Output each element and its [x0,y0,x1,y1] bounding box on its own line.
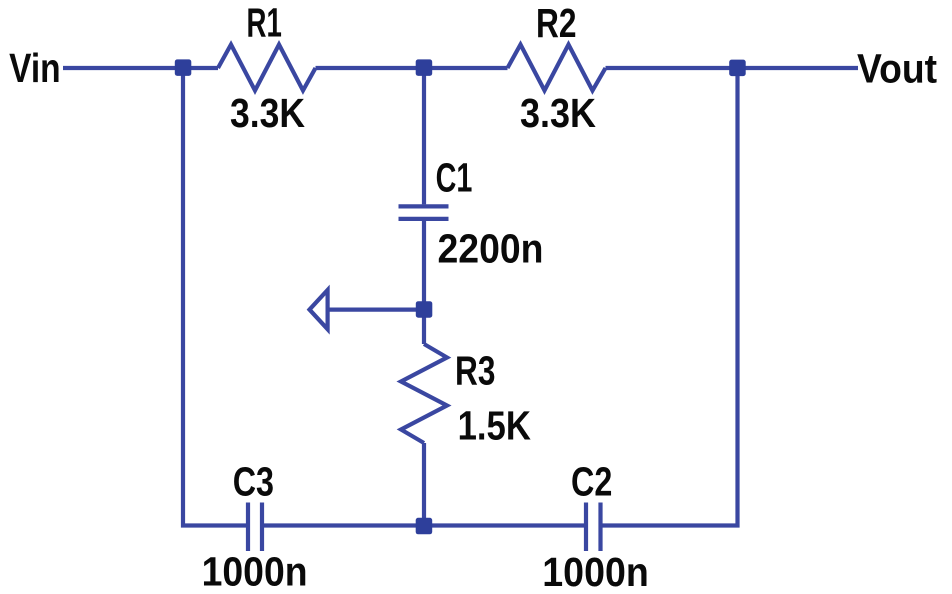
svg-text:R2: R2 [536,0,577,46]
svg-text:1.5K: 1.5K [458,402,531,448]
svg-text:3.3K: 3.3K [230,90,305,136]
wire R2 to node C [606,66,738,70]
wire bottom-right rail and right vertical [603,68,738,526]
wire R3 to node E [422,443,426,526]
node D junction [416,301,433,318]
node E junction [416,518,433,535]
wire left vertical and bottom-left rail [183,68,246,526]
node B junction [416,59,433,76]
wire C1 to node D [422,221,426,310]
capacitor C2 [586,503,601,552]
wire node B down to C1 [422,68,426,204]
wire Vin lead to node A [63,66,183,70]
wire R1 to node B [316,66,425,70]
node C junction [729,60,746,77]
svg-text:C3: C3 [233,458,274,504]
svg-text:C1: C1 [436,154,473,200]
wire node D to R3 [422,310,426,344]
svg-text:R3: R3 [455,348,495,394]
capacitor C3 [248,503,262,552]
svg-text:1000n: 1000n [542,549,649,594]
svg-text:1000n: 1000n [202,549,308,594]
arrow output tap [310,290,328,329]
wire node B to R2 [424,66,508,70]
resistor R2 [508,45,606,91]
svg-text:2200n: 2200n [438,226,544,272]
svg-text:3.3K: 3.3K [520,90,596,136]
svg-text:Vin: Vin [9,45,61,91]
wire node D tap line [329,308,424,312]
wire bottom rail C3 to node E [264,523,424,527]
svg-text:C2: C2 [571,458,612,504]
node A junction [175,59,192,76]
resistor R3 [401,344,447,443]
capacitor C1 [399,206,449,219]
svg-text:Vout: Vout [857,45,937,91]
wire bottom rail node E to C2 [424,523,584,527]
svg-text:R1: R1 [247,0,282,46]
resistor R1 [218,45,316,91]
wire node A to R1 [183,66,218,70]
wire node C to Vout lead [738,66,859,70]
